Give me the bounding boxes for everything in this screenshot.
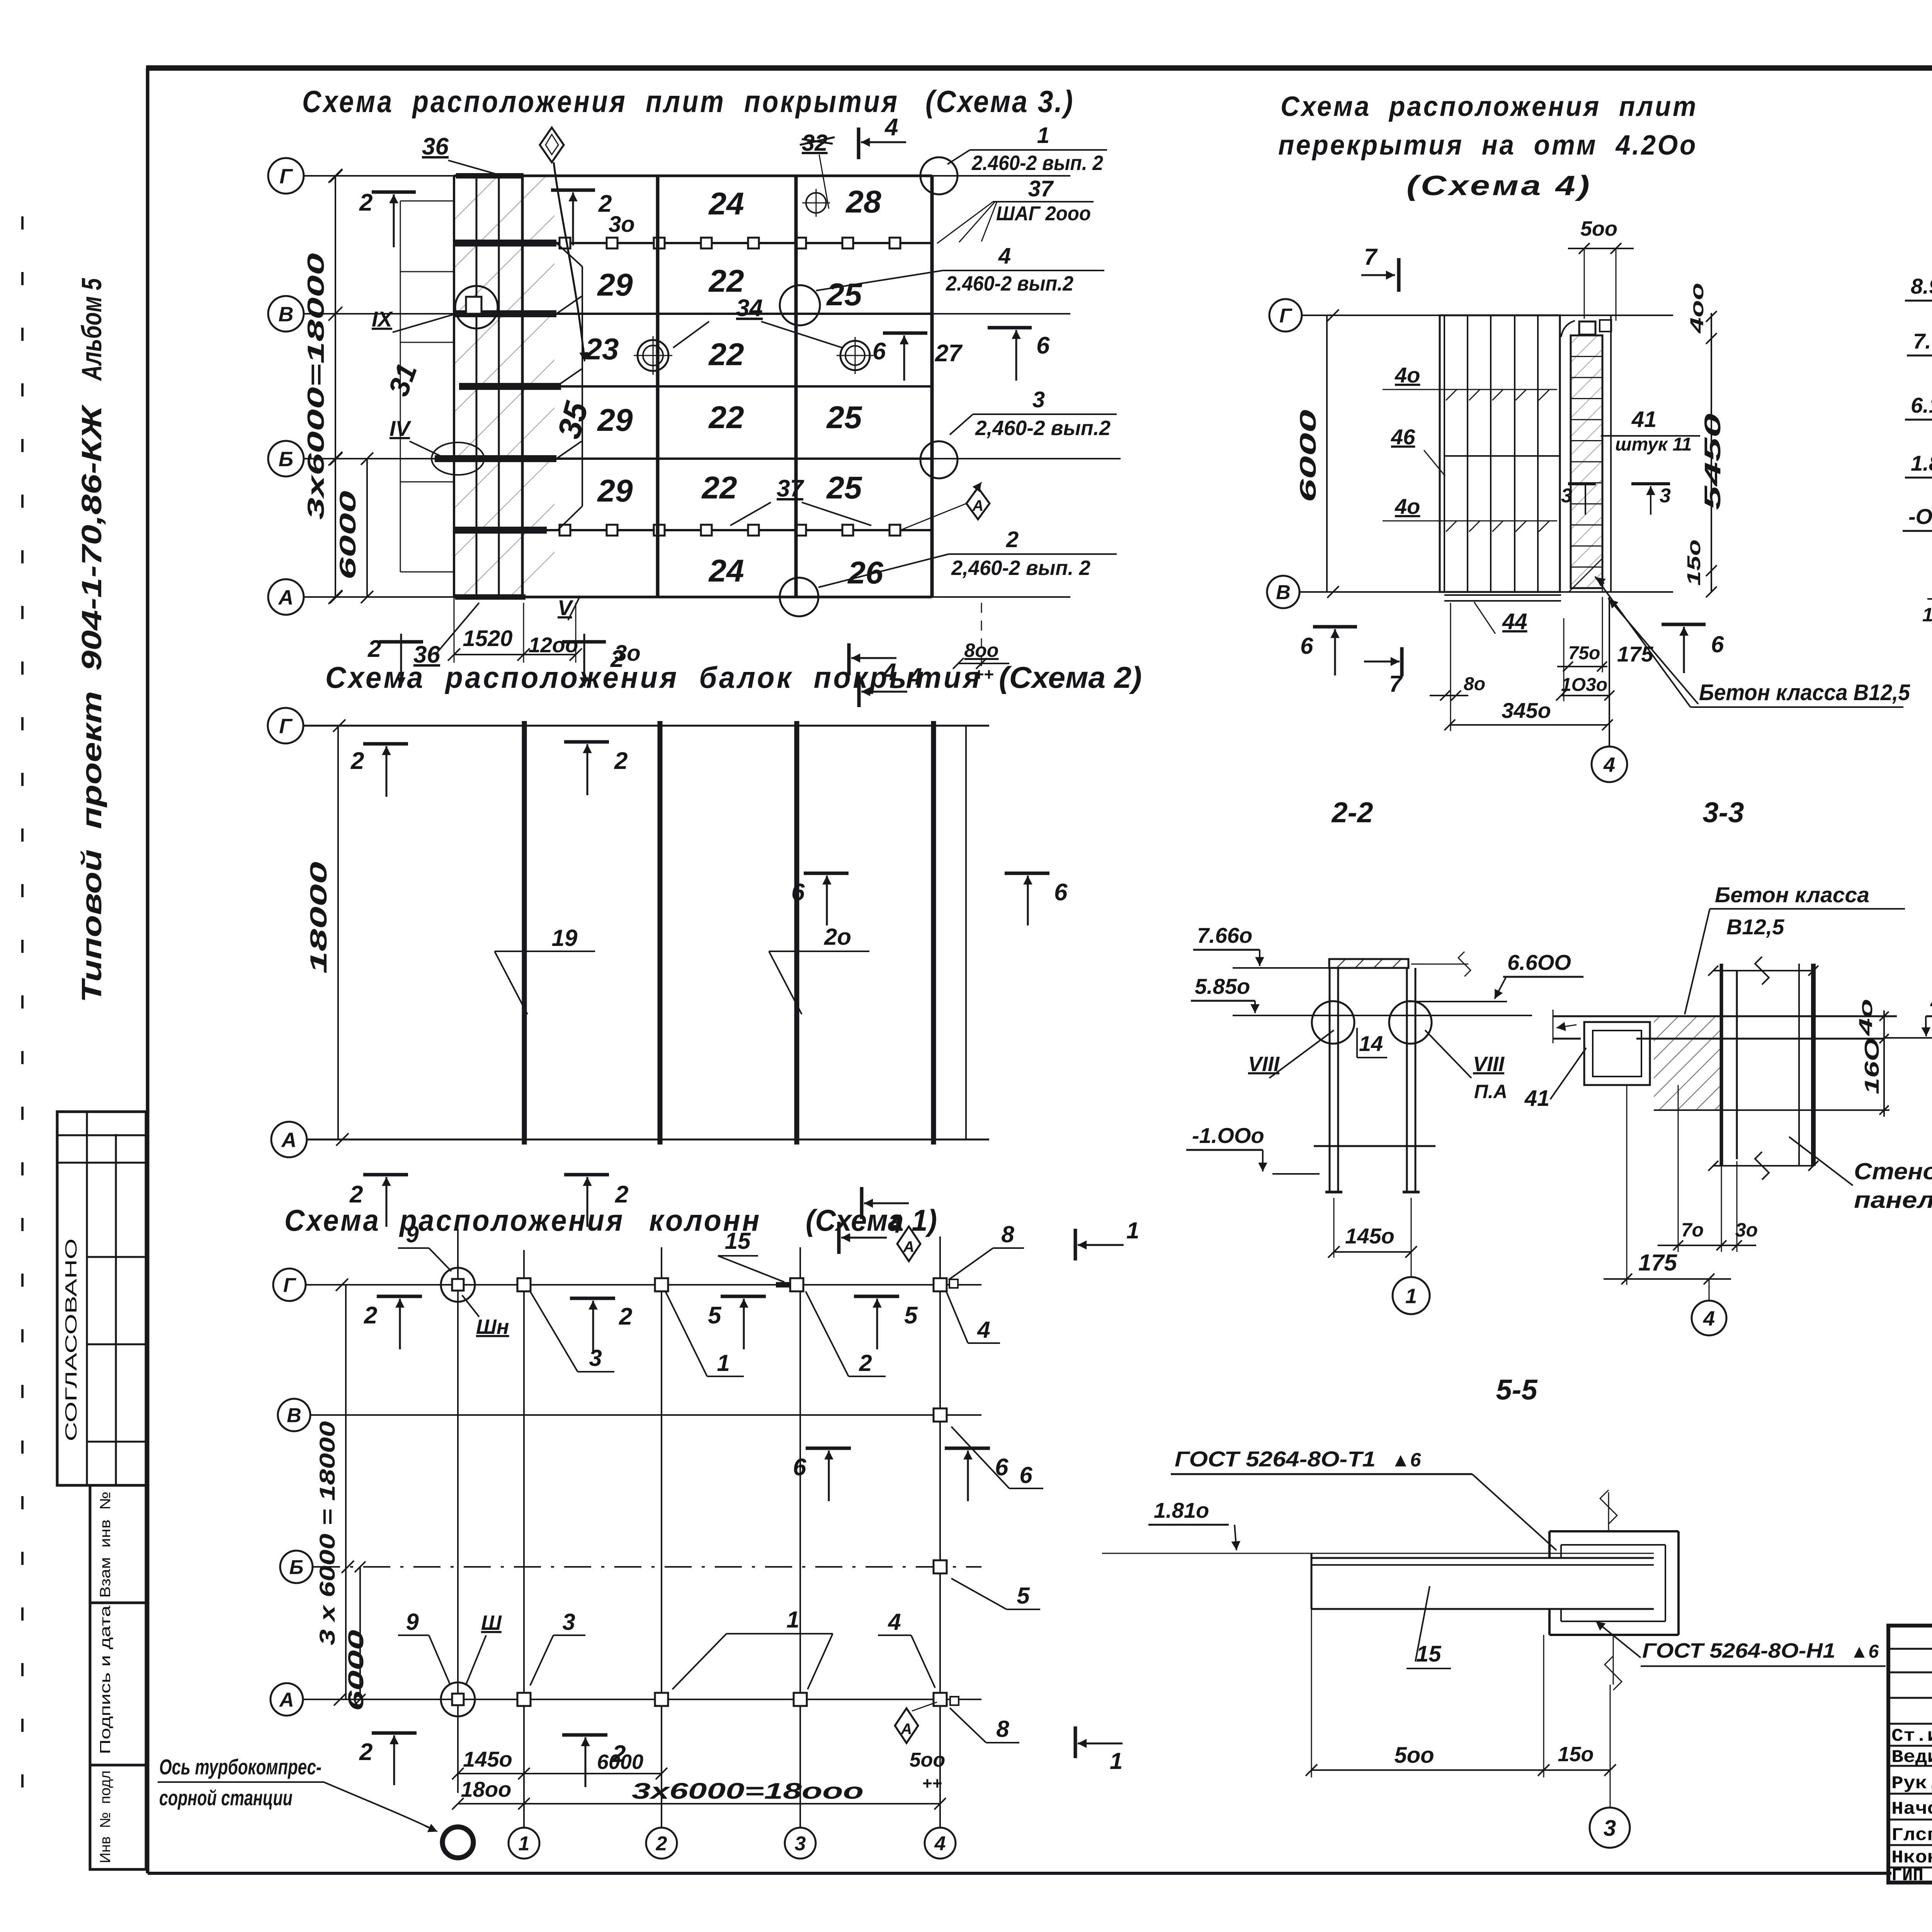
target symbol row3 right: [840, 341, 870, 370]
section mark 6 s2 right: [1005, 872, 1049, 875]
svg-text:Б: Б: [289, 1556, 304, 1579]
section mark 2 s1 bottom-left: [372, 1731, 417, 1735]
svg-text:9: 9: [406, 1221, 419, 1247]
svg-text:сорной станции: сорной станции: [159, 1786, 293, 1810]
svg-text:Шн: Шн: [476, 1315, 509, 1338]
grid line Г scheme1: [306, 1284, 981, 1286]
svg-text:СОГЛАСОВАНО: СОГЛАСОВАНО: [62, 1238, 80, 1441]
svg-text:29: 29: [597, 267, 633, 303]
section mark 3 right half: [1631, 482, 1670, 485]
svg-text:Ось турбокомпрес-: Ось турбокомпрес-: [159, 1755, 321, 1779]
svg-text:34: 34: [736, 295, 763, 321]
dim 500 150 s55: [1311, 1609, 1312, 1777]
svg-text:1: 1: [1126, 1218, 1139, 1243]
section mark 6 s2 left: [804, 872, 849, 875]
thick slab bar rowБ: [435, 455, 556, 462]
svg-text:22: 22: [701, 470, 737, 505]
beam on line 2: [658, 721, 663, 1145]
level line 6.600 right: [1410, 1001, 1507, 1002]
stamp left rows: [1888, 1648, 1932, 1650]
svg-text:IV: IV: [389, 416, 412, 440]
svg-text:15о: 15о: [1558, 1743, 1594, 1766]
svg-text:41: 41: [1631, 407, 1657, 432]
leader circle VIII left: [1312, 1001, 1354, 1044]
grid bubble Г scheme3: [268, 158, 304, 194]
svg-text:3х6000=18ооо: 3х6000=18ооо: [632, 1779, 864, 1804]
svg-text:2: 2: [619, 1303, 632, 1330]
slab block outline scheme4: [1440, 315, 1560, 592]
svg-text:175: 175: [1638, 1250, 1678, 1276]
plan slab joint row 6 with squares: [454, 529, 932, 531]
svg-text:6: 6: [791, 879, 805, 906]
thick slab bar row2: [454, 240, 556, 247]
svg-text:22: 22: [708, 400, 744, 435]
diamond A s1 bottom: [895, 1708, 918, 1743]
slab left end 33: [1553, 1010, 1554, 1043]
svg-text:3о: 3о: [1735, 1219, 1758, 1241]
svg-text:3-3: 3-3: [1703, 796, 1744, 828]
column feet section2-2: [1325, 1191, 1342, 1194]
slab mid joint horizontal: [1444, 455, 1560, 457]
svg-text:4о: 4о: [1395, 494, 1420, 519]
column square А0 in circle: [441, 1682, 475, 1716]
svg-text:6.6ОО: 6.6ОО: [1507, 950, 1571, 975]
inv podl box: [90, 1765, 146, 1869]
section mark 6 s4 left: [1313, 625, 1357, 629]
dim 1450 section2-2: [1333, 1198, 1335, 1258]
leader 2 2.460-2: [818, 554, 949, 587]
svg-text:5450: 5450: [1700, 413, 1725, 510]
slab joint vertical b: [1490, 315, 1492, 592]
svg-text:1: 1: [786, 1607, 799, 1633]
svg-text:А: А: [901, 1721, 912, 1738]
section mark 6 s1 right: [945, 1447, 990, 1450]
slab top line 33: [1553, 1015, 1897, 1017]
bottom bubble 4 scheme4: [1609, 597, 1610, 747]
bracket inner 55: [1561, 1544, 1665, 1546]
section mark 2 s2 bottom-right: [564, 1173, 609, 1177]
section mark 5 s1 mid-left: [721, 1295, 766, 1298]
section mark 4 s2 bottom: [860, 1187, 864, 1219]
vzam inv box: [90, 1485, 146, 1603]
svg-text:Подпись и дата: Подпись и дата: [97, 1605, 114, 1754]
svg-text:18оо: 18оо: [461, 1777, 512, 1801]
dim line 1450 6000: [458, 1773, 662, 1774]
approval table inner vertical 2: [115, 1134, 117, 1485]
top right line with break: [1411, 964, 1468, 965]
grid line Г scheme3: [304, 175, 1070, 177]
dim line 6000 scheme4: [1326, 315, 1328, 592]
svg-text:В: В: [1276, 582, 1291, 604]
grid line А scheme1: [303, 1699, 981, 1700]
grid bubble Б scheme1: [280, 1551, 313, 1583]
svg-text:1: 1: [1110, 1748, 1122, 1774]
dim 3450 scheme4: [1450, 724, 1607, 726]
svg-text:4: 4: [1703, 1307, 1715, 1330]
svg-text:6000: 6000: [1296, 410, 1321, 502]
svg-text:8: 8: [996, 1716, 1009, 1742]
svg-text:штук 11: штук 11: [1615, 434, 1692, 455]
wall lines 33: [1720, 964, 1723, 1166]
svg-text:1О3о: 1О3о: [1561, 675, 1607, 695]
section mark 2 top-right: [551, 189, 595, 192]
svg-text:19: 19: [552, 925, 578, 951]
svg-text:6: 6: [1054, 879, 1068, 906]
grid bubble Г scheme4: [1269, 299, 1302, 332]
grid line В scheme4: [1300, 591, 1673, 593]
svg-text:12оо: 12оо: [529, 633, 578, 657]
leader 4 2.460-2: [816, 270, 943, 291]
approval table inner vertical 1: [86, 1112, 88, 1485]
svg-text:7.66о: 7.66о: [1197, 923, 1252, 947]
column square Г3 with bar 15: [776, 1282, 801, 1287]
svg-text:29: 29: [597, 403, 633, 438]
section mark 2 top-left: [372, 190, 416, 194]
leader circle 4: [780, 285, 820, 325]
grid bubble Г scheme1: [273, 1269, 306, 1301]
svg-text:18000: 18000: [306, 862, 332, 974]
bottom bubble 4 section3-3: [1709, 1279, 1710, 1301]
svg-text:Б: Б: [279, 447, 293, 471]
diamond A s1 top: [897, 1226, 920, 1261]
dim line left scheme1: [345, 1285, 347, 1699]
dim line 1800 18000: [458, 1803, 940, 1804]
svg-text:5: 5: [708, 1302, 722, 1329]
svg-text:15: 15: [1416, 1641, 1441, 1667]
svg-text:6000: 6000: [335, 491, 361, 580]
column axis line 4: [939, 1236, 941, 1827]
svg-text:Типовой проект 904-1-70,86-К: Типовой проект 904-1-70,86-КЖ: [77, 404, 107, 1003]
leader circle 3 at Б4: [920, 441, 957, 478]
section mark 2 s1 bottom-right: [562, 1733, 607, 1737]
svg-text:2: 2: [359, 1739, 372, 1765]
svg-text:5.85о: 5.85о: [1195, 974, 1250, 998]
approval table row line 2: [57, 1162, 146, 1164]
grid bubble Б scheme3: [268, 441, 304, 476]
grid line А scheme2: [307, 1139, 989, 1141]
svg-text:А: А: [281, 1128, 297, 1151]
leader circle VIII right: [1389, 1001, 1432, 1044]
column line 1 scheme3: [521, 176, 524, 597]
svg-text:А: А: [278, 586, 294, 609]
svg-text:44: 44: [1502, 609, 1527, 634]
svg-text:Г: Г: [1279, 305, 1293, 327]
svg-text:2: 2: [367, 636, 381, 662]
svg-text:А: А: [972, 497, 984, 514]
svg-text:5оо: 5оо: [1580, 217, 1617, 240]
bottom bubble 1 scheme1: [509, 1828, 539, 1859]
svg-text:2,460-2 вып.2: 2,460-2 вып.2: [975, 417, 1111, 440]
grid bubble В scheme4: [1267, 576, 1299, 608]
svg-text:Нконтр: Нконтр: [1891, 1848, 1932, 1868]
hatch bottom line 33: [1654, 1109, 1889, 1111]
svg-text:А: А: [903, 1238, 915, 1255]
plates block vertical 3: [498, 176, 500, 597]
grid bubble А scheme2: [271, 1122, 307, 1157]
svg-text:Начотл: Начотл: [1891, 1799, 1932, 1819]
column square Г0 in circle: [441, 1268, 475, 1302]
thick slab bar row6: [454, 527, 547, 534]
svg-text:перекрытия на отм 4.2Оо: перекрытия на отм 4.2Оо: [1278, 130, 1697, 161]
section mark 2 s1 mid-right: [570, 1297, 615, 1300]
grid line А scheme3: [304, 596, 1070, 598]
svg-text:25: 25: [826, 400, 862, 435]
grid line В scheme3: [304, 313, 1070, 315]
svg-text:Схема расположения плит пок: Схема расположения плит покрытия: [302, 84, 899, 119]
bottom bubble 3 section5-5: [1610, 1685, 1611, 1807]
plan line В thick: [454, 313, 932, 315]
svg-text:3: 3: [589, 1345, 602, 1371]
plan bottom edge А: [454, 596, 932, 599]
thick slab bar top: [456, 173, 524, 179]
approval table row line 3: [87, 1256, 146, 1258]
svg-text:Схема расположения плит: Схема расположения плит: [1281, 91, 1698, 122]
svg-text:4: 4: [908, 663, 922, 690]
thick slab bar row4: [459, 383, 561, 390]
svg-text:2: 2: [859, 1350, 872, 1376]
svg-text:27: 27: [935, 340, 963, 367]
column square Б4: [934, 1560, 947, 1573]
svg-text:6: 6: [1036, 332, 1050, 359]
grid line В scheme1: [311, 1414, 981, 1416]
wall panel lines right 33: [1798, 964, 1800, 1166]
svg-text:4: 4: [977, 1317, 990, 1343]
svg-text:28: 28: [845, 184, 881, 219]
column box inner 33: [1593, 1031, 1641, 1077]
svg-text:6: 6: [1300, 633, 1313, 659]
bracket outer 55: [1549, 1530, 1679, 1532]
level line right 33: [1884, 1037, 1932, 1039]
grid bubble А scheme3: [268, 579, 304, 615]
svg-text:Г: Г: [283, 1274, 296, 1297]
svg-text:Взам инв №: Взам инв №: [97, 1492, 114, 1598]
svg-text:++: ++: [922, 1774, 942, 1793]
break line bottom 55: [1613, 1635, 1614, 1685]
svg-text:▲6: ▲6: [1391, 1449, 1421, 1471]
stepped boundary line 35 zone: [582, 267, 583, 506]
svg-text:5: 5: [1017, 1583, 1030, 1609]
svg-text:А: А: [279, 1689, 294, 1711]
svg-text:4: 4: [884, 114, 898, 141]
leader 1 2.460-2: [947, 150, 970, 164]
turbo axis blob circle: [442, 1827, 473, 1858]
svg-text:1.81о: 1.81о: [1154, 1498, 1209, 1522]
svg-text:3: 3: [1561, 485, 1572, 507]
concrete hatch zone 33: [1654, 1017, 1721, 1110]
stack column plates 41: [1571, 335, 1602, 588]
svg-text:46: 46: [1391, 425, 1415, 449]
slab bottom line 33: [1553, 1038, 1581, 1040]
svg-text:2о: 2о: [824, 924, 851, 950]
svg-text:1520: 1520: [463, 626, 512, 651]
section mark 2 s1 mid-left: [377, 1295, 422, 1298]
dim 175 s33: [1626, 1085, 1628, 1285]
left dim line 6000 scheme3: [366, 459, 368, 597]
broken dim line top 33: [1713, 970, 1813, 971]
column line 3 scheme3: [794, 176, 798, 597]
svg-text:Бетон класса В12,5: Бетон класса В12,5: [1699, 680, 1910, 705]
svg-text:6: 6: [1019, 1462, 1032, 1488]
svg-text:16О: 16О: [1861, 1038, 1883, 1094]
svg-text:2: 2: [614, 748, 628, 774]
dim 40 160 right 33: [1883, 1010, 1885, 1117]
svg-text:-О.1Оо: -О.1Оо: [1908, 504, 1932, 529]
thick slab bar bottom: [455, 594, 526, 600]
svg-text:2-2: 2-2: [1331, 796, 1373, 828]
svg-text:Схема расположения балок по: Схема расположения балок покрытия: [325, 660, 982, 694]
column axis line 1: [523, 1250, 525, 1827]
binding margin dashed line: [21, 216, 24, 1801]
left outline of monorail zone: [400, 201, 401, 572]
svg-text:1: 1: [717, 1350, 730, 1376]
svg-text:3: 3: [1604, 1816, 1616, 1841]
plan slab joint row 2 with squares: [454, 242, 932, 244]
svg-text:4.2Оо: 4.2Оо: [1930, 990, 1932, 1014]
svg-text:IX: IX: [372, 307, 394, 331]
svg-text:22: 22: [708, 337, 744, 372]
dim 750 175 scheme4: [1557, 666, 1607, 667]
svg-text:4оо: 4оо: [1687, 283, 1708, 334]
target symbol row3 left: [638, 340, 668, 371]
dim line 18000 scheme2: [337, 726, 339, 1139]
svg-text:4: 4: [1603, 753, 1615, 776]
leader 3 2.460-2: [950, 414, 973, 435]
svg-text:6: 6: [793, 1454, 806, 1481]
svg-text:6000: 6000: [597, 1750, 643, 1774]
slab joint vertical a: [1467, 315, 1468, 592]
diamond A right: [966, 488, 990, 519]
svg-text:V: V: [558, 595, 574, 620]
grid bubble А scheme1: [270, 1683, 303, 1716]
top left level line 7.660: [1233, 967, 1335, 969]
svg-text:(Схема 3.): (Схема 3.): [925, 84, 1074, 119]
grid line Б scheme3: [304, 458, 1121, 459]
column square А1: [517, 1693, 531, 1706]
section mark 2 s2 top-left: [363, 742, 408, 746]
grid line Б scheme1: [313, 1566, 981, 1568]
svg-text:Г: Г: [279, 714, 293, 738]
svg-text:Вединж: Вединж: [1891, 1747, 1932, 1767]
grid line Г scheme4: [1302, 315, 1673, 316]
dim 80 1030 scheme4: [1430, 695, 1468, 696]
column box outer 33: [1584, 1022, 1650, 1085]
section mark 2 s2 top-right: [564, 740, 609, 744]
svg-text:4о: 4о: [1395, 363, 1420, 387]
svg-text:2.460-2 вып.2: 2.460-2 вып.2: [946, 272, 1073, 295]
svg-text:5: 5: [904, 1302, 918, 1329]
foundation line section2-2: [1314, 1145, 1435, 1147]
svg-text:145о: 145о: [463, 1747, 512, 1771]
column square Г4: [934, 1278, 947, 1291]
beam on line 4: [931, 721, 936, 1145]
column square А2: [655, 1693, 668, 1706]
svg-text:2,460-2 вып. 2: 2,460-2 вып. 2: [951, 556, 1090, 580]
svg-text:7: 7: [1364, 244, 1378, 270]
svg-text:5оо: 5оо: [910, 1749, 945, 1771]
stamp outer box: [1888, 1626, 1932, 1883]
svg-text:36: 36: [422, 133, 449, 160]
svg-text:25: 25: [826, 277, 862, 312]
svg-text:3: 3: [1032, 387, 1045, 412]
svg-text:6000: 6000: [344, 1630, 368, 1711]
beam top lines 55: [1311, 1557, 1654, 1559]
svg-text:7о: 7о: [1681, 1219, 1704, 1241]
svg-text:15о: 15о: [1684, 539, 1704, 586]
svg-text:75о: 75о: [1568, 643, 1600, 663]
roof slab hat section2-2: [1329, 959, 1408, 968]
svg-text:1.85о: 1.85о: [1911, 451, 1932, 475]
column 2 section2-2: [1406, 968, 1408, 1192]
section mark 1 s1 top: [1074, 1229, 1077, 1260]
leader circle 2 at А: [780, 578, 818, 616]
level line 5.850: [1233, 1015, 1532, 1016]
break line top 55: [1608, 1492, 1609, 1531]
border frame bottom line: [148, 1872, 1891, 1875]
svg-text:VIII: VIII: [1248, 1053, 1280, 1076]
border frame left line: [146, 68, 150, 1873]
svg-text:2: 2: [359, 189, 372, 216]
svg-text:Ш: Ш: [481, 1611, 502, 1634]
svg-text:145о: 145о: [1345, 1224, 1395, 1248]
svg-text:4о: 4о: [1856, 999, 1876, 1036]
svg-text:ШАГ 2ооо: ШАГ 2ооо: [996, 202, 1091, 225]
section mark 2 bottom-right: [562, 640, 606, 644]
svg-text:▲6: ▲6: [1850, 1641, 1879, 1662]
column square Г2: [655, 1278, 668, 1291]
grid bubble В scheme1: [278, 1399, 310, 1431]
section mark 2 bottom-left: [379, 640, 423, 644]
svg-text:6: 6: [995, 1454, 1009, 1481]
svg-text:8.97о: 8.97о: [1911, 274, 1932, 298]
plan top edge Г: [454, 175, 932, 177]
leader circle 1 at Г4: [920, 157, 957, 194]
svg-text:4: 4: [998, 243, 1011, 269]
svg-text:1: 1: [519, 1833, 530, 1855]
photo diamond mark top: [540, 128, 564, 162]
plates block hatch fill: [454, 176, 554, 597]
svg-text:Глспец: Глспец: [1891, 1825, 1932, 1845]
column square Г1: [517, 1278, 531, 1291]
svg-text:-1.ООо: -1.ООо: [1192, 1123, 1264, 1148]
svg-text:7: 7: [1389, 671, 1403, 697]
svg-text:22: 22: [708, 264, 744, 299]
section mark 6 s4 right: [1662, 623, 1706, 626]
section mark 1 s1 bottom: [1074, 1726, 1077, 1758]
column axis line 0 turbo: [457, 1229, 459, 1793]
svg-text:VIII: VIII: [1473, 1053, 1505, 1076]
svg-text:ГИП: ГИП: [1891, 1866, 1923, 1886]
svg-text:Альбом 5: Альбом 5: [77, 278, 107, 381]
column 1 section2-2: [1329, 968, 1331, 1192]
broken dim line bottom 33: [1713, 1165, 1813, 1167]
section mark 4 s1 top: [837, 1222, 841, 1254]
capsule at Б block IV: [432, 442, 484, 475]
svg-text:панель: панель: [1854, 1187, 1932, 1213]
section mark 7 bottom scheme4: [1364, 661, 1400, 663]
beam 19a on line 1: [522, 721, 527, 1145]
right dim line scheme4: [1711, 313, 1712, 592]
svg-text:6: 6: [872, 338, 886, 365]
svg-text:3х6000=18000: 3х6000=18000: [303, 253, 329, 520]
svg-text:7.000: 7.000: [1913, 329, 1932, 353]
level line 1.810: [1102, 1553, 1654, 1554]
beam left end 55: [1311, 1553, 1313, 1609]
column square В4: [934, 1408, 947, 1422]
svg-text:Стеновая: Стеновая: [1854, 1158, 1932, 1184]
svg-text:2: 2: [364, 1302, 377, 1329]
svg-text:15: 15: [725, 1228, 751, 1254]
section mark 6 s1 left: [806, 1447, 851, 1450]
